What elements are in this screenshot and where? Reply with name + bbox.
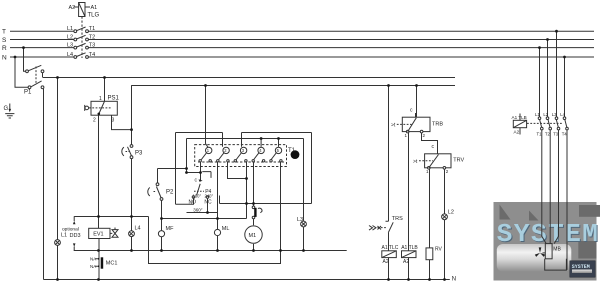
svg-text:3: 3 bbox=[112, 118, 115, 124]
svg-text:1: 1 bbox=[99, 96, 102, 102]
svg-text:NA: NA bbox=[90, 264, 96, 269]
svg-text:>t: >t bbox=[391, 123, 396, 129]
svg-text:A1 TLC: A1 TLC bbox=[382, 245, 399, 251]
svg-text:optional: optional bbox=[62, 227, 79, 233]
svg-text:L3: L3 bbox=[67, 43, 73, 49]
svg-text:T4: T4 bbox=[89, 52, 95, 58]
svg-text:A2: A2 bbox=[383, 259, 389, 265]
svg-text:T3: T3 bbox=[89, 43, 95, 49]
svg-text:T1: T1 bbox=[537, 132, 543, 137]
svg-text:180°: 180° bbox=[193, 193, 202, 198]
svg-text:2: 2 bbox=[423, 133, 426, 138]
svg-text:T2: T2 bbox=[545, 132, 551, 137]
svg-text:c: c bbox=[195, 178, 198, 184]
svg-text:A2: A2 bbox=[69, 5, 76, 11]
svg-text:A1 TLB: A1 TLB bbox=[512, 115, 527, 120]
svg-text:T: T bbox=[2, 29, 6, 36]
svg-text:L4: L4 bbox=[67, 52, 73, 58]
svg-text:L2: L2 bbox=[67, 35, 73, 41]
svg-text:A2: A2 bbox=[514, 129, 520, 134]
svg-text:T4: T4 bbox=[562, 132, 568, 137]
svg-text:1: 1 bbox=[426, 169, 429, 174]
svg-text:360°: 360° bbox=[193, 207, 203, 212]
svg-text:NO: NO bbox=[189, 200, 197, 206]
svg-text:EV1: EV1 bbox=[93, 232, 103, 238]
svg-text:PS1: PS1 bbox=[108, 96, 120, 102]
svg-text:L4: L4 bbox=[560, 112, 565, 117]
svg-text:MF: MF bbox=[166, 226, 175, 232]
svg-text:>t: >t bbox=[413, 159, 418, 165]
svg-text:P3: P3 bbox=[135, 151, 143, 157]
svg-text:TLG: TLG bbox=[88, 13, 100, 19]
svg-text:L1: L1 bbox=[535, 112, 540, 117]
svg-text:L2: L2 bbox=[543, 112, 548, 117]
svg-text:240°: 240° bbox=[205, 193, 214, 198]
svg-text:N: N bbox=[452, 276, 456, 282]
svg-text:TRV: TRV bbox=[453, 158, 464, 164]
svg-text:L4: L4 bbox=[135, 226, 141, 232]
svg-text:c: c bbox=[432, 144, 435, 150]
svg-text:RV: RV bbox=[435, 247, 443, 253]
svg-text:ML: ML bbox=[222, 226, 230, 232]
svg-text:A1: A1 bbox=[91, 5, 98, 11]
svg-text:L3: L3 bbox=[297, 217, 303, 223]
svg-text:DD3: DD3 bbox=[70, 233, 81, 239]
svg-text:NA: NA bbox=[90, 257, 96, 262]
svg-text:T2: T2 bbox=[89, 35, 95, 41]
svg-text:SYSTEM: SYSTEM bbox=[572, 264, 590, 270]
svg-text:M1: M1 bbox=[249, 233, 257, 239]
svg-text:A2: A2 bbox=[403, 259, 409, 265]
svg-text:P2: P2 bbox=[166, 190, 174, 196]
svg-text:L3: L3 bbox=[552, 112, 557, 117]
svg-text:L2: L2 bbox=[448, 210, 454, 216]
svg-text:1: 1 bbox=[405, 133, 408, 138]
svg-text:T1: T1 bbox=[288, 148, 296, 154]
svg-text:T3: T3 bbox=[553, 132, 559, 137]
svg-text:T1: T1 bbox=[89, 26, 95, 32]
svg-text:2: 2 bbox=[93, 118, 96, 124]
svg-text:TRS: TRS bbox=[392, 216, 403, 222]
svg-text:P1: P1 bbox=[24, 90, 32, 96]
svg-text:TRB: TRB bbox=[432, 121, 443, 127]
svg-text:A1 TLB: A1 TLB bbox=[401, 245, 418, 251]
svg-text:L1: L1 bbox=[67, 26, 73, 32]
svg-text:L1: L1 bbox=[61, 233, 67, 239]
svg-text:c: c bbox=[410, 108, 413, 114]
svg-text:NC: NC bbox=[204, 200, 212, 206]
svg-text:MB: MB bbox=[553, 246, 561, 252]
svg-text:R: R bbox=[2, 45, 7, 52]
svg-text:G: G bbox=[4, 106, 9, 112]
svg-text:MC1: MC1 bbox=[106, 261, 118, 267]
svg-text:N: N bbox=[2, 55, 7, 62]
svg-text:2: 2 bbox=[446, 169, 449, 174]
svg-text:S: S bbox=[2, 37, 7, 44]
